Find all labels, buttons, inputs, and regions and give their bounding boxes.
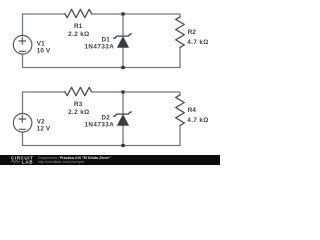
wire: R2 bottom lead down and across to node B: [123, 48, 180, 68]
wire: V2 plus terminal up and across to R3 left lead: [23, 92, 65, 114]
svg-text:1N4733A: 1N4733A: [84, 44, 114, 51]
wire: V1 plus terminal up and across to R1 left lead: [23, 14, 65, 36]
svg-text:2.2 kΩ: 2.2 kΩ: [68, 31, 89, 38]
resistor R2: [176, 17, 185, 47]
voltage source V1: [13, 36, 32, 55]
svg-text:D1: D1: [102, 36, 111, 43]
node C junction dot (top of D2): [121, 90, 124, 93]
svg-text:V2: V2: [37, 118, 45, 125]
wire: node A down to D1 cathode: [122, 14, 124, 36]
wire: node C across and down to R4 top lead: [123, 92, 180, 95]
svg-text:R3: R3: [74, 101, 83, 108]
svg-text:4.7 kΩ: 4.7 kΩ: [187, 39, 208, 46]
wire: R1 right lead to node A: [92, 13, 124, 15]
node B junction dot (bottom of D1): [121, 66, 124, 69]
CircuitLab logo: [11, 155, 33, 164]
wire: R3 right lead to node C: [92, 91, 124, 93]
svg-text:http://circuitlab.com/c/amtyzb: http://circuitlab.com/c/amtyzb: [38, 160, 84, 164]
svg-text:LAB: LAB: [22, 159, 33, 164]
resistor R4: [176, 95, 185, 125]
zener diode D1: [114, 34, 132, 47]
footer watermark bar: [0, 155, 220, 165]
node D junction dot (bottom of D2): [121, 144, 124, 147]
resistor R1: [65, 9, 92, 17]
svg-text:R2: R2: [188, 29, 197, 36]
zener diode D2: [114, 112, 132, 125]
svg-text:10 V: 10 V: [37, 47, 51, 54]
wire: node A across and down to R2 top lead: [123, 14, 180, 17]
wire: node D across and up to V2 minus terminal: [23, 132, 124, 146]
svg-text:4.7 kΩ: 4.7 kΩ: [187, 117, 208, 124]
wire: node B across and up to V1 minus terminal: [23, 54, 124, 68]
resistor R3: [65, 87, 92, 95]
svg-text:1N4733A: 1N4733A: [84, 122, 114, 129]
svg-text:R1: R1: [74, 23, 83, 30]
svg-text:D2: D2: [102, 114, 111, 121]
wire: D2 anode down to node D: [122, 125, 124, 146]
wire: R4 bottom lead down and across to node D: [123, 126, 180, 146]
svg-text:2.2 kΩ: 2.2 kΩ: [68, 109, 89, 116]
node A junction dot (top of D1): [121, 12, 124, 15]
svg-text:R4: R4: [188, 107, 197, 114]
wire: node C down to D2 cathode: [122, 92, 124, 114]
voltage source V2: [13, 114, 32, 133]
svg-text:V1: V1: [37, 40, 45, 47]
svg-text:12 V: 12 V: [37, 125, 51, 132]
wire: D1 anode down to node B: [122, 47, 124, 68]
